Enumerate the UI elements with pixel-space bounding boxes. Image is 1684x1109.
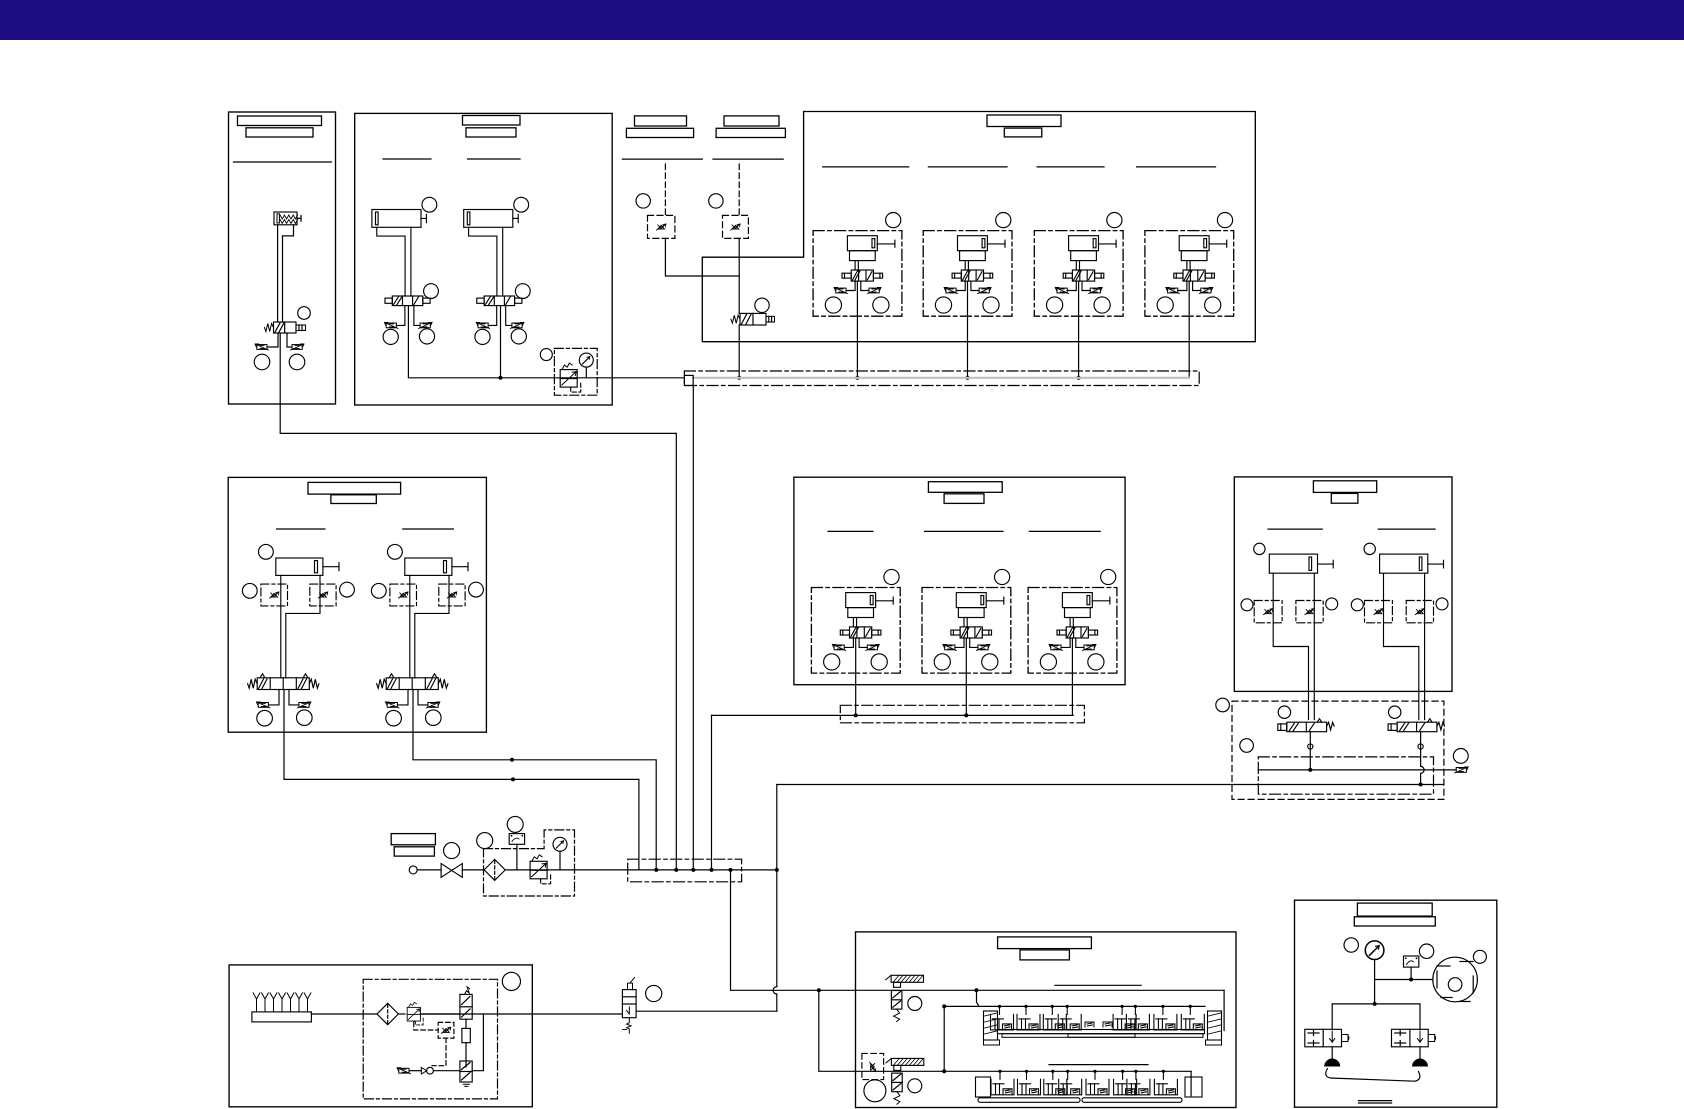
manifold 1 feed wire down: [692, 386, 694, 870]
balloon: [477, 833, 493, 849]
wire nozzle group 2 down: [738, 238, 740, 313]
bank 1 blank station feet: [1085, 1022, 1094, 1027]
label line 2: [925, 530, 1003, 532]
balloon: [755, 298, 769, 312]
box 5 subtitle bar: [944, 494, 984, 504]
box 9 outline: [1295, 900, 1497, 1107]
clamp circuit A of box 3: [242, 544, 354, 726]
wire manifold to filter: [311, 1013, 377, 1015]
regulator pilot dashed path: [414, 1022, 438, 1030]
slide unit 4: [1145, 213, 1234, 317]
box 1 subtitle bar: [246, 128, 313, 137]
title bar: [724, 116, 779, 126]
balloon: [444, 843, 460, 859]
distribution to pads: [1332, 1004, 1420, 1029]
wire to manifold 2: [855, 638, 857, 715]
bank 2 right end block: [1185, 1077, 1202, 1097]
junction dot: [510, 758, 514, 762]
balloon: [864, 1080, 886, 1102]
box 5 outline: [794, 477, 1125, 685]
suction pad left: [1324, 1059, 1340, 1067]
box 1 title bar: [238, 116, 322, 126]
manifold 1 bus pipe: [693, 377, 1189, 379]
bank 1 right end plate: [1208, 1011, 1222, 1040]
box 3 subtitle bar: [331, 495, 376, 504]
vacuum pad valve left: [1305, 1029, 1342, 1047]
label line 1: [383, 158, 431, 160]
slide unit 2: [923, 213, 1012, 317]
box 4 subtitle bar: [1004, 128, 1042, 137]
box 8 subtitle bar: [1020, 950, 1069, 960]
pilot operated valve: [460, 1061, 472, 1082]
box 6 outline: [1234, 477, 1452, 692]
wire valve A stem to line 1: [1309, 732, 1311, 770]
clamp circuit B of box 3: [371, 544, 483, 726]
filter: [377, 1003, 398, 1024]
FRL phantom enclosure: [484, 830, 575, 896]
wire valve B to supply line: [500, 306, 502, 378]
balloon: [507, 816, 523, 832]
wire slide 4 to bus right end: [1188, 281, 1190, 378]
wire slide 3 to bus: [1078, 281, 1080, 378]
junction dot: [499, 376, 503, 380]
box 4 title bar: [987, 115, 1061, 127]
box 1 outline: [229, 112, 336, 404]
balloon: [709, 194, 723, 208]
blow-off control valve: [740, 313, 766, 325]
balloon: [908, 997, 922, 1011]
muffler left: [254, 354, 270, 370]
manual shut-off valve: [441, 864, 462, 878]
wire to manifold 2 right end: [1071, 638, 1074, 715]
label line 2: [928, 166, 1007, 168]
balloon: [1240, 739, 1254, 753]
junction tee to lower feed: [817, 988, 821, 992]
air inlet port: [409, 866, 417, 874]
nozzle enclosure: [723, 215, 749, 238]
subtitle bar: [716, 128, 785, 137]
label line 2: [1378, 528, 1435, 530]
blow-off nozzle manifold: [252, 1012, 312, 1022]
line A drop to bank 1 right end: [1223, 990, 1225, 1030]
soft-start dashed box: [862, 1053, 884, 1079]
exhaust branch right: [287, 333, 292, 347]
manifold 2 feed wire down: [711, 715, 713, 870]
box 2 title bar: [463, 116, 521, 126]
pilot needle dashed box: [438, 1022, 454, 1038]
label line 1: [828, 530, 873, 532]
pressure regulator: [530, 855, 551, 884]
pilot line 2: [777, 784, 1444, 786]
shut-off valve 2: [894, 1065, 901, 1070]
balloon: [1419, 944, 1433, 958]
gripper cylinder with spring: [274, 212, 297, 225]
vacuum switch: [1404, 956, 1419, 967]
supply wire from box1 valve down and across: [280, 333, 676, 870]
strip phantom outline: [628, 859, 742, 882]
hand lockout valve: [622, 990, 636, 1018]
link down: [465, 1019, 467, 1028]
nozzle enclosure: [648, 215, 675, 238]
pressure regulator: [560, 363, 581, 392]
balloon: [908, 1079, 922, 1093]
FRL subtitle bar: [394, 847, 434, 856]
slide unit 5-2: [922, 569, 1011, 673]
wire slide 1 to bus: [856, 281, 858, 378]
FRL title bar: [391, 834, 435, 845]
vacuum gauge: [1365, 941, 1384, 960]
bank 2 left end block: [976, 1077, 991, 1097]
box 5 title bar: [928, 482, 1002, 493]
slide unit 3: [1034, 213, 1123, 317]
slide unit 5-1: [811, 569, 900, 673]
box 6 title bar: [1313, 481, 1376, 493]
header bar: [0, 0, 1684, 40]
pressure gauge: [553, 837, 567, 851]
right link riser: [472, 1014, 483, 1071]
cylinder circuit B of box 2: [464, 197, 531, 344]
label line: [713, 158, 783, 160]
dashed drop line: [664, 164, 666, 215]
label line 2: [403, 528, 454, 530]
balloon: [540, 349, 552, 361]
bank 2 label line: [1049, 1064, 1148, 1066]
wire nozzle group 1 down: [665, 238, 739, 276]
pressure gauge: [579, 353, 593, 367]
bottom pilot flow control: [397, 1068, 411, 1074]
box 7 outline: [229, 965, 532, 1107]
label line 3: [1037, 166, 1104, 168]
label line 1: [1268, 528, 1322, 530]
shut-off valve 1 anchor plate: [891, 975, 923, 982]
valve 3/2 spring return: [274, 322, 297, 333]
slide unit 1: [813, 213, 902, 317]
box 9 title bar: [1357, 903, 1432, 916]
subtitle bar: [626, 128, 693, 137]
balloon: [1344, 938, 1358, 952]
shut-off valve 2 anchor plate: [891, 1058, 923, 1065]
main supply line out of blow-off box: [421, 1013, 623, 1015]
wire valve B stem to line 2 with hop over line 1: [1420, 732, 1422, 767]
manifold 1 inlet block: [684, 375, 693, 385]
bank 1 left end plate: [984, 1011, 998, 1040]
pressure switch: [509, 834, 524, 845]
box 3 title bar: [308, 482, 401, 494]
manifold 2 phantom outline: [840, 705, 1084, 723]
balloon: [646, 985, 662, 1001]
balloon: [1473, 950, 1486, 963]
small regulator: [407, 1002, 423, 1025]
pad wire right: [1419, 1047, 1421, 1061]
manifold 1 phantom outline: [684, 371, 1199, 386]
balloon: [1216, 698, 1230, 712]
box 1 separator line: [234, 161, 332, 163]
cylinder circuit A of box 2: [372, 197, 439, 344]
label line 1: [823, 166, 909, 168]
box 8 title bar: [998, 937, 1092, 949]
pusher circuit B of box 6: [1351, 543, 1448, 749]
valve bank 2 stations: [991, 1070, 1014, 1095]
balloon: [636, 194, 650, 208]
bank 2 base rail: [978, 1098, 1080, 1103]
bank 1 supply left riser: [943, 1006, 945, 1071]
box 6 subtitle bar: [1331, 493, 1358, 503]
workpiece profile: [1326, 1069, 1420, 1082]
pilot line 1 with flow control: [1258, 769, 1456, 771]
wire cylinder to valve (rod): [283, 225, 294, 322]
balloon: [298, 307, 311, 320]
bank 1 stations: [991, 1005, 1014, 1030]
supply line A through valve 1: [856, 989, 1225, 991]
title bar: [635, 116, 687, 126]
pilot network phantom enclosure: [1258, 757, 1433, 794]
pusher circuit A of box 6: [1241, 543, 1338, 749]
pad wire left: [1331, 1047, 1333, 1061]
wire valve B down to bus: [413, 690, 656, 870]
box 9 subtitle bar: [1354, 917, 1435, 926]
balloon: [1453, 749, 1468, 764]
exhaust branch left: [267, 333, 278, 347]
box 8 outline: [856, 932, 1237, 1108]
label line 2: [468, 158, 521, 160]
label line: [622, 158, 702, 160]
filter: [484, 859, 505, 880]
dashed drop line: [738, 164, 740, 215]
pilot valve 3/2: [460, 994, 472, 1019]
wire valve to supply bus: [738, 325, 740, 378]
line C drop to bank 2 right end: [1190, 1071, 1192, 1095]
suction pad right: [1412, 1059, 1428, 1067]
supply line C through valve 2: [856, 1070, 1192, 1072]
branch wire to lower valve banks: [731, 870, 856, 990]
wire cylinder to valve (cap): [277, 225, 279, 322]
muffler right: [289, 354, 305, 370]
junction dots on bus: [654, 868, 658, 872]
label line 4: [1137, 166, 1216, 168]
box 4 outline: [702, 112, 1255, 342]
bank 1 base rail: [998, 1030, 1205, 1034]
vacuum pump: [1433, 957, 1478, 1002]
datum marks: [1359, 1100, 1392, 1102]
manifold 2 bus pipe: [712, 714, 1074, 716]
stub from line A to bank 1 supply: [977, 990, 980, 1006]
box 2 outline: [355, 113, 613, 405]
valve bank 1 supply rail: [944, 1005, 1205, 1007]
box 3 outline: [228, 477, 486, 732]
supply riser with hop: [776, 994, 778, 1011]
wire to manifold 2: [965, 638, 967, 715]
box 2 subtitle bar: [466, 128, 516, 137]
balloon: [502, 972, 520, 990]
bank 1 label line: [1055, 984, 1141, 986]
blow-off control phantom enclosure: [363, 979, 497, 1099]
wire valve A down to bus: [284, 690, 639, 870]
vacuum line: [1375, 979, 1433, 981]
wire valve A to supply line: [408, 306, 684, 378]
supply line to riser: [636, 1010, 777, 1012]
label line 1: [277, 528, 325, 530]
slide unit 5-3: [1028, 569, 1117, 673]
valve group dashed enclosure: [1232, 701, 1444, 799]
main line through FRL: [505, 869, 777, 871]
regulator assembly enclosure: [554, 348, 597, 395]
shut-off valve 1: [894, 982, 901, 987]
vacuum pad valve right: [1392, 1029, 1429, 1047]
junction dot: [511, 777, 515, 781]
label line 3: [1029, 530, 1100, 532]
wire slide 2 to bus: [967, 281, 969, 378]
